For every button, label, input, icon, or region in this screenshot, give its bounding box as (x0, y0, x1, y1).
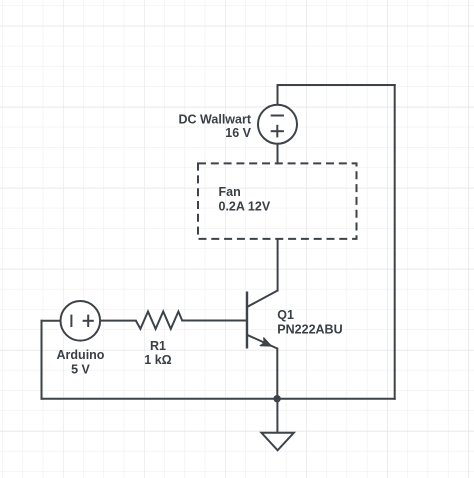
svg-text:16 V: 16 V (225, 126, 251, 140)
svg-text:Fan: Fan (219, 185, 241, 199)
svg-text:1 kΩ: 1 kΩ (144, 353, 171, 367)
label Fan 0.2A 12V (219, 185, 271, 213)
wire Q1 emitter to bottom node (276, 349, 278, 399)
wire R1 to Q1 base (182, 320, 246, 322)
svg-text:PN222ABU: PN222ABU (277, 323, 342, 337)
wire left lead of Arduino source (42, 320, 61, 322)
wire top: V2 top to top-right corner (278, 85, 395, 105)
label Arduino 5 V (57, 348, 105, 377)
voltage source V1 Arduino (61, 301, 101, 341)
wire V2 bottom to Fan box (277, 144, 279, 164)
svg-text:5 V: 5 V (71, 363, 90, 377)
label Q1 PN222ABU (277, 308, 342, 337)
junction node dot (273, 395, 280, 402)
wire left side (41, 321, 43, 399)
svg-text:Q1: Q1 (277, 308, 294, 322)
fan load box (dashed) (198, 163, 357, 239)
wire right side (394, 85, 396, 399)
transistor Q1 (247, 291, 278, 349)
svg-text:Arduino: Arduino (57, 348, 105, 362)
svg-text:0.2A 12V: 0.2A 12V (219, 199, 271, 213)
svg-text:R1: R1 (150, 339, 166, 353)
ground (262, 399, 294, 451)
label R1 1 kOhm (144, 339, 171, 367)
wire Arduino source to R1 (100, 320, 136, 322)
wire bottom (42, 398, 395, 400)
label DC Wallwart 16 V (179, 112, 252, 140)
resistor R1 (136, 312, 182, 329)
voltage source V2 DC Wallwart (258, 105, 297, 144)
wire Fan box to Q1 collector (277, 239, 279, 291)
emitter arrow of Q1 (260, 338, 271, 346)
svg-text:DC Wallwart: DC Wallwart (179, 112, 252, 126)
